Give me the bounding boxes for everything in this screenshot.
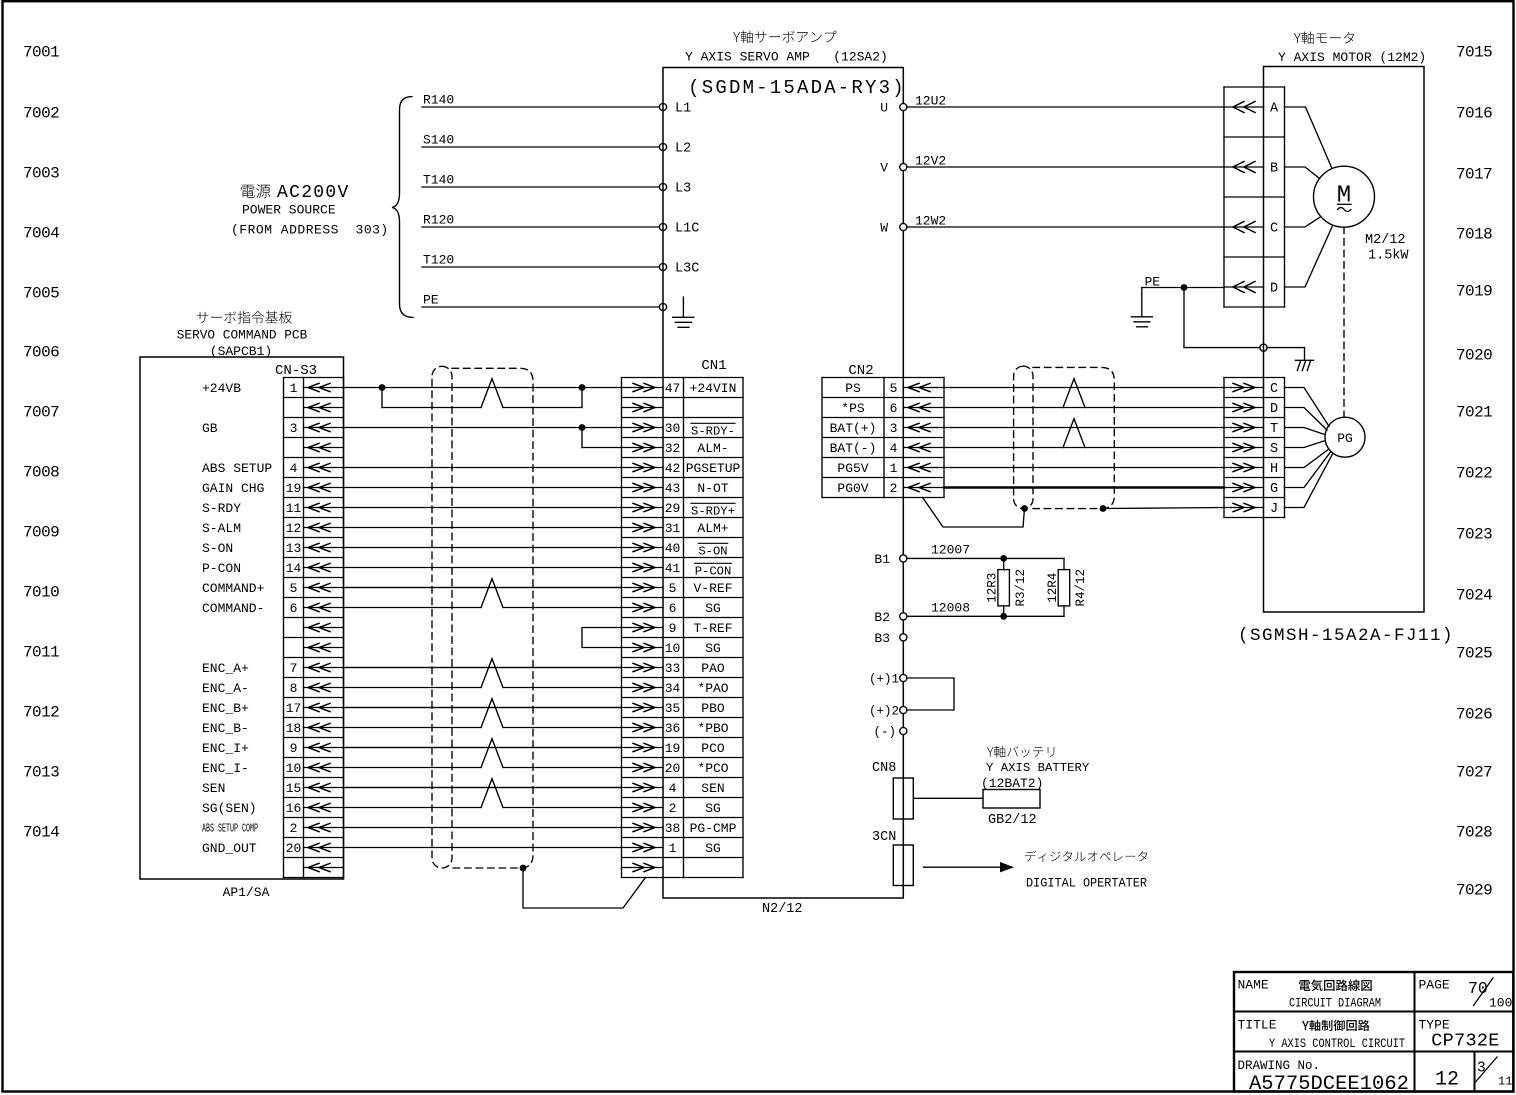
- pin CN1 9 T-REF: [622, 621, 733, 636]
- svg-text:GND_OUT: GND_OUT: [202, 841, 257, 856]
- svg-text:7021: 7021: [1456, 403, 1492, 421]
- svg-text:6: 6: [290, 601, 298, 616]
- label DRAWING No.: [1238, 1059, 1321, 1073]
- line number 7028: [1456, 823, 1492, 841]
- wire motor pin C: [1285, 217, 1321, 227]
- svg-text:30: 30: [665, 421, 681, 436]
- svg-text:13: 13: [286, 541, 302, 556]
- svg-text:2: 2: [669, 801, 677, 816]
- svg-text:19: 19: [286, 481, 302, 496]
- line number 7025: [1456, 644, 1492, 662]
- line number 7027: [1456, 763, 1492, 781]
- svg-text:20: 20: [286, 841, 302, 856]
- svg-text:L3C: L3C: [675, 262, 699, 277]
- wire PE: [422, 293, 660, 308]
- wire 12W2: [907, 214, 1224, 229]
- svg-text:*PCO: *PCO: [697, 761, 728, 776]
- svg-text:16: 16: [286, 801, 302, 816]
- wire row 10 (P-CON): [344, 567, 622, 569]
- svg-text:11: 11: [286, 501, 302, 516]
- wire GB branch to pin32 ALM-: [582, 428, 622, 448]
- pin CN1 29 S-RDY+: [622, 501, 736, 519]
- svg-text:ABS SETUP COMP: ABS SETUP COMP: [202, 823, 258, 836]
- label (12BAT2): [981, 776, 1043, 791]
- servo command PCB box AP1/SA: [140, 357, 344, 879]
- pin CN-S3 blank: [304, 443, 344, 451]
- pin motor B: [1224, 162, 1278, 177]
- pin CN1 35 PBO: [622, 701, 725, 716]
- svg-text:COMMAND-: COMMAND-: [202, 601, 264, 616]
- svg-text:T140: T140: [423, 173, 454, 188]
- svg-text:S: S: [1270, 442, 1278, 457]
- svg-text:12R4: 12R4: [1046, 573, 1060, 603]
- svg-text:+24VIN: +24VIN: [690, 381, 737, 396]
- svg-text:ENC_B+: ENC_B+: [202, 701, 249, 716]
- svg-text:12V2: 12V2: [915, 154, 946, 169]
- svg-text:W: W: [880, 221, 888, 236]
- svg-text:PBO: PBO: [701, 701, 725, 716]
- wire twist PS pair: [1063, 379, 1085, 408]
- resistor R3/12 (12R3): [986, 558, 1029, 616]
- ground chassis (motor frame): [1296, 360, 1314, 370]
- terminal W: [880, 221, 907, 236]
- line number 7016: [1456, 104, 1492, 122]
- line number 7011: [23, 643, 59, 661]
- wire row 5 (ABS SETUP): [344, 467, 622, 469]
- svg-text:12: 12: [1435, 1069, 1459, 1092]
- svg-text:H: H: [1270, 462, 1278, 477]
- wire row 11 (COMMAND+): [344, 587, 622, 589]
- svg-text:7027: 7027: [1456, 763, 1492, 781]
- svg-text:S-ON: S-ON: [202, 541, 233, 556]
- line number 7001: [23, 43, 59, 61]
- line number 7022: [1456, 464, 1492, 482]
- label PAGE: [1419, 978, 1450, 993]
- svg-text:7016: 7016: [1456, 104, 1492, 122]
- junction PE: [1181, 284, 1188, 291]
- wire CN2 PG5V to H: [944, 467, 1224, 469]
- svg-text:PCO: PCO: [701, 741, 725, 756]
- svg-text:7015: 7015: [1456, 43, 1492, 61]
- encoder PG circle: [1325, 417, 1365, 457]
- wire PG pin T: [1285, 428, 1325, 435]
- svg-text:3: 3: [890, 421, 898, 436]
- connector CN2 table: [822, 378, 944, 498]
- label AP1/SA: [223, 885, 270, 900]
- svg-text:(SGMSH-15A2A-FJ11): (SGMSH-15A2A-FJ11): [1238, 626, 1454, 646]
- wire PG pin S: [1285, 441, 1325, 448]
- line number 7017: [1456, 165, 1492, 183]
- svg-text:A: A: [1270, 102, 1279, 117]
- pin CN-S3 11 S-RDY: [202, 501, 344, 516]
- svg-text:V: V: [880, 161, 888, 176]
- svg-text:U: U: [880, 101, 888, 116]
- servo amp box (12SA2): [663, 68, 903, 899]
- svg-text:(+)2: (+)2: [869, 705, 899, 719]
- svg-text:PG5V: PG5V: [837, 461, 868, 476]
- svg-text:ENC_B-: ENC_B-: [202, 721, 249, 736]
- label Y AXIS CONTROL CIRCUIT: [1269, 1036, 1405, 1051]
- label Y axis motor JP: [1294, 31, 1354, 44]
- terminal B3: [874, 631, 907, 646]
- wire shield to J: [1103, 508, 1224, 509]
- svg-text:3CN: 3CN: [872, 830, 896, 845]
- svg-text:7022: 7022: [1456, 464, 1492, 482]
- connector CN8: [893, 778, 913, 819]
- svg-text:SEN: SEN: [701, 781, 724, 796]
- wire row 7 (S-RDY): [344, 507, 622, 509]
- pin CN-S3 12 S-ALM: [202, 521, 344, 536]
- svg-text:7003: 7003: [23, 164, 59, 182]
- svg-text:B2: B2: [874, 610, 890, 625]
- pin CN1 47 +24VIN: [622, 381, 737, 396]
- svg-text:7029: 7029: [1456, 881, 1492, 899]
- connector 3CN: [893, 845, 913, 886]
- svg-text:D: D: [1270, 402, 1278, 417]
- svg-text:N-OT: N-OT: [697, 481, 728, 496]
- wire ENC_A+: [344, 667, 622, 669]
- svg-text:42: 42: [665, 461, 681, 476]
- label FROM ADDRESS 303: [231, 223, 389, 238]
- label 3/11: [1476, 1057, 1513, 1089]
- svg-text:12008: 12008: [931, 600, 970, 615]
- pin PG C: [1224, 382, 1278, 397]
- svg-text:A5775DCEE1062: A5775DCEE1062: [1249, 1073, 1409, 1095]
- svg-text:R4/12: R4/12: [1074, 569, 1088, 607]
- pin CN2 2 PG0V: [837, 481, 944, 496]
- junction +24VB left: [379, 384, 386, 391]
- svg-text:10: 10: [286, 761, 302, 776]
- svg-text:T120: T120: [423, 253, 454, 268]
- svg-text:19: 19: [665, 741, 681, 756]
- svg-text:(FROM ADDRESS 303): (FROM ADDRESS 303): [231, 223, 389, 238]
- pin CN2 1 PG5V: [837, 461, 944, 476]
- line number 7023: [1456, 525, 1492, 543]
- svg-text:NAME: NAME: [1238, 978, 1269, 993]
- svg-text:Y AXIS BATTERY: Y AXIS BATTERY: [986, 761, 1090, 775]
- pin CN1 4 SEN: [622, 781, 725, 796]
- svg-text:15: 15: [286, 781, 302, 796]
- wire (+)1 to (+)2 loop: [907, 678, 954, 710]
- svg-text:*PAO: *PAO: [697, 681, 728, 696]
- label SGDM-15ADA-RY3: [688, 77, 906, 99]
- wire CN8 to battery: [913, 797, 983, 799]
- label L3C: [675, 262, 699, 277]
- svg-text:*PBO: *PBO: [697, 721, 728, 736]
- line number 7014: [23, 823, 59, 841]
- wire PE to motor frame terminal: [1184, 288, 1260, 348]
- svg-text:*PS: *PS: [841, 401, 865, 416]
- terminal L2: [659, 143, 666, 150]
- svg-text:(-): (-): [873, 726, 896, 740]
- wire R140: [422, 93, 660, 108]
- wire ENC_I+: [344, 747, 622, 749]
- wire COMMAND- with twist: [344, 579, 622, 608]
- svg-text:7028: 7028: [1456, 823, 1492, 841]
- label CIRCUIT DIAGRAM: [1289, 996, 1381, 1011]
- svg-text:32: 32: [665, 441, 681, 456]
- pin CN1 blank: [622, 863, 664, 871]
- svg-text:7023: 7023: [1456, 525, 1492, 543]
- svg-text:7002: 7002: [23, 104, 59, 122]
- svg-text:18: 18: [286, 721, 302, 736]
- svg-text:M2/12: M2/12: [1365, 233, 1406, 248]
- wire T-REF SG loop: [582, 628, 622, 648]
- svg-text:7011: 7011: [23, 643, 59, 661]
- wire 12U2: [907, 94, 1224, 109]
- svg-text:L1: L1: [675, 102, 691, 117]
- label SERVO COMMAND PCB: [177, 328, 308, 343]
- pin CN-S3 blank: [304, 643, 344, 651]
- wire T120: [422, 253, 660, 268]
- svg-text:4: 4: [890, 441, 898, 456]
- label CN2: [848, 363, 873, 379]
- wire 12008: [907, 600, 1064, 616]
- wire ENC_B- with twist: [344, 699, 622, 728]
- svg-text:6: 6: [890, 401, 898, 416]
- shield right cable (dashed): [1033, 367, 1114, 508]
- svg-text:Y AXIS CONTROL CIRCUIT: Y AXIS CONTROL CIRCUIT: [1269, 1036, 1405, 1051]
- wire motor pin D: [1285, 227, 1333, 288]
- wire CN2 *PS to D: [944, 407, 1224, 409]
- pin CN-S3 20 GND_OUT: [202, 841, 344, 856]
- svg-text:PE: PE: [1145, 275, 1161, 290]
- svg-text:COMMAND+: COMMAND+: [202, 581, 265, 596]
- svg-text:7025: 7025: [1456, 644, 1492, 662]
- svg-text:B1: B1: [874, 552, 890, 567]
- svg-text:7012: 7012: [23, 703, 59, 721]
- svg-text:12: 12: [286, 521, 302, 536]
- label NAME: [1238, 978, 1269, 993]
- svg-text:20: 20: [665, 761, 681, 776]
- pin CN-S3 8 ENC_A-: [202, 681, 344, 696]
- svg-text:B: B: [1270, 162, 1278, 177]
- wire row 19 (ENC_I+): [344, 747, 622, 749]
- svg-text:1: 1: [669, 841, 677, 856]
- svg-text:PE: PE: [423, 293, 439, 308]
- pin CN1 30 S-RDY-: [622, 421, 736, 439]
- svg-text:Y AXIS MOTOR (12M2): Y AXIS MOTOR (12M2): [1278, 50, 1426, 65]
- svg-text:7014: 7014: [23, 823, 59, 841]
- label Y AXIS SERVO AMP (12SA2): [685, 50, 888, 65]
- svg-text:TITLE: TITLE: [1238, 1018, 1277, 1033]
- svg-text:100: 100: [1489, 996, 1512, 1011]
- pin PG D: [1224, 402, 1278, 417]
- svg-text:SG: SG: [705, 801, 721, 816]
- svg-text:BAT(+): BAT(+): [830, 421, 877, 436]
- pin CN-S3 14 P-CON: [202, 561, 344, 576]
- svg-text:10: 10: [665, 641, 681, 656]
- wire COMMAND+: [344, 587, 622, 589]
- line number 7006: [23, 343, 59, 361]
- dashed link motor to PG: [1343, 227, 1345, 417]
- svg-text:11: 11: [1498, 1075, 1512, 1089]
- line number 7007: [23, 403, 59, 421]
- label CN1: [701, 358, 726, 374]
- title block frame: [1234, 972, 1513, 1092]
- line number 7015: [1456, 43, 1492, 61]
- terminal L1: [659, 103, 666, 110]
- svg-text:M: M: [1337, 183, 1351, 210]
- pin CN-S3 4 ABS SETUP: [202, 461, 344, 476]
- svg-text:DIGITAL OPERTATER: DIGITAL OPERTATER: [1026, 876, 1147, 891]
- svg-text:7010: 7010: [23, 583, 59, 601]
- junction R3 bottom: [1000, 613, 1007, 620]
- svg-text:PAGE: PAGE: [1419, 978, 1450, 993]
- wire S140: [422, 133, 660, 148]
- line number 7018: [1456, 225, 1492, 243]
- line number 7003: [23, 164, 59, 182]
- line number 7012: [23, 703, 59, 721]
- svg-text:R3/12: R3/12: [1014, 569, 1028, 607]
- svg-text:V-REF: V-REF: [693, 581, 732, 596]
- svg-text:40: 40: [665, 541, 681, 556]
- svg-text:8: 8: [290, 681, 298, 696]
- motor M1 circle: [1314, 166, 1375, 227]
- svg-text:CP732E: CP732E: [1431, 1031, 1499, 1052]
- wire CN2 PG0V to G: [944, 486, 1224, 488]
- label A5775DCEE1062: [1249, 1073, 1409, 1095]
- pin CN-S3 blank: [304, 623, 344, 631]
- pin CN-S3 5 COMMAND+: [202, 581, 344, 596]
- svg-text:6: 6: [669, 601, 677, 616]
- svg-text:SG: SG: [705, 641, 721, 656]
- wire SEN: [344, 787, 622, 789]
- pin CN-S3 15 SEN: [202, 781, 344, 796]
- svg-text:S-ALM: S-ALM: [202, 521, 241, 536]
- svg-text:PS: PS: [845, 381, 861, 396]
- svg-text:(+)1: (+)1: [869, 673, 899, 687]
- wire row 21 (SEN): [344, 787, 622, 789]
- svg-text:1: 1: [290, 381, 298, 396]
- svg-text:7: 7: [290, 661, 298, 676]
- wire ENC_B+: [344, 707, 622, 709]
- wire row 23 (ABS SETUP COMP): [344, 827, 622, 829]
- pin CN1 33 PAO: [622, 661, 725, 676]
- svg-text:L2: L2: [675, 142, 691, 157]
- label 3CN: [872, 830, 896, 845]
- pin CN2 3 BAT(+): [830, 421, 944, 436]
- svg-text:9: 9: [669, 621, 677, 636]
- pin CN1 34 *PAO: [622, 681, 729, 696]
- svg-text:12007: 12007: [931, 542, 970, 557]
- svg-text:CIRCUIT DIAGRAM: CIRCUIT DIAGRAM: [1289, 996, 1381, 1011]
- svg-text:SG: SG: [705, 601, 721, 616]
- wire 12007: [907, 542, 1064, 558]
- label L2: [675, 142, 691, 157]
- pin CN1 20 *PCO: [622, 761, 729, 776]
- pin motor D: [1224, 282, 1278, 297]
- line number 7005: [23, 284, 59, 302]
- pin PG H: [1224, 462, 1278, 477]
- label CP732E: [1431, 1031, 1499, 1052]
- svg-text:33: 33: [665, 661, 681, 676]
- wire 12V2: [907, 154, 1224, 169]
- line number 7002: [23, 104, 59, 122]
- label Y AXIS BATTERY: [986, 761, 1090, 775]
- line number 7013: [23, 763, 59, 781]
- line number 7010: [23, 583, 59, 601]
- svg-text:4: 4: [290, 461, 298, 476]
- svg-text:3: 3: [1477, 1061, 1486, 1077]
- wire PG pin J: [1285, 454, 1333, 508]
- svg-text:12W2: 12W2: [915, 214, 946, 229]
- svg-text:(12BAT2): (12BAT2): [981, 776, 1043, 791]
- pin CN1 blank: [622, 403, 664, 411]
- label CN-S3: [275, 363, 317, 379]
- pin CN2 5 PS: [845, 381, 944, 396]
- wire ENC_A- with twist: [344, 659, 622, 688]
- svg-text:P-CON: P-CON: [202, 561, 241, 576]
- pin CN1 6 SG: [622, 601, 721, 616]
- brace power source: [392, 97, 413, 318]
- svg-text:GAIN CHG: GAIN CHG: [202, 481, 264, 496]
- pin CN2 6 *PS: [841, 401, 944, 416]
- svg-text:DRAWING No.: DRAWING No.: [1238, 1059, 1321, 1073]
- wire +24VB pin1 to pin47: [344, 387, 622, 389]
- terminal motor frame: [1260, 344, 1267, 351]
- svg-text:4: 4: [669, 781, 677, 796]
- pin CN1 40 S-ON: [622, 541, 728, 559]
- svg-text:43: 43: [665, 481, 681, 496]
- wire ENC_I- with twist: [344, 739, 622, 768]
- junction shield right 1: [1021, 505, 1028, 512]
- wire row 17 (ENC_B+): [344, 707, 622, 709]
- svg-text:7007: 7007: [23, 403, 59, 421]
- svg-text:PGSETUP: PGSETUP: [686, 461, 741, 476]
- svg-text:R140: R140: [423, 93, 454, 108]
- svg-text:38: 38: [665, 821, 681, 836]
- svg-text:(SGDM-15ADA-RY3): (SGDM-15ADA-RY3): [688, 77, 906, 99]
- svg-text:PG: PG: [1337, 431, 1353, 446]
- motor power connector table: [1224, 87, 1285, 307]
- wire PG pin C: [1285, 388, 1330, 427]
- terminal L1C: [659, 223, 666, 230]
- pin CN-S3 10 ENC_I-: [202, 761, 344, 776]
- pin CN1 32 ALM-: [622, 441, 729, 456]
- svg-text:35: 35: [665, 701, 681, 716]
- svg-text:C: C: [1270, 382, 1278, 397]
- label Y axis servo amp JP: [733, 30, 836, 43]
- svg-text:S-RDY: S-RDY: [202, 501, 241, 516]
- label Y axis battery JP: [987, 746, 1054, 758]
- label L3: [675, 182, 691, 197]
- svg-text:7024: 7024: [1456, 586, 1492, 604]
- line number 7029: [1456, 881, 1492, 899]
- pin CN-S3 17 ENC_B+: [202, 701, 344, 716]
- svg-text:12R3: 12R3: [986, 573, 1000, 603]
- wire PG pin H: [1285, 450, 1329, 468]
- line number 7021: [1456, 403, 1492, 421]
- svg-text:CN2: CN2: [848, 363, 873, 379]
- svg-text:7008: 7008: [23, 463, 59, 481]
- label Y AXIS MOTOR (12M2): [1278, 50, 1426, 65]
- resistor R4/12 (12R4): [1046, 558, 1088, 616]
- svg-text:5: 5: [890, 381, 898, 396]
- label TITLE: [1238, 1018, 1277, 1033]
- motor box (12M2): [1264, 67, 1425, 613]
- wire CN2 shell to shield: [923, 498, 1025, 528]
- svg-text:T-REF: T-REF: [693, 621, 732, 636]
- svg-text:7001: 7001: [23, 43, 59, 61]
- svg-text:ALM-: ALM-: [697, 441, 728, 456]
- svg-text:17: 17: [286, 701, 302, 716]
- svg-text:S-RDY+: S-RDY+: [691, 505, 735, 519]
- pin CN1 41 P-CON: [622, 561, 732, 579]
- line number 7019: [1456, 282, 1492, 300]
- wire 3CN to digital operator: [924, 862, 1015, 872]
- pin motor C: [1224, 222, 1278, 237]
